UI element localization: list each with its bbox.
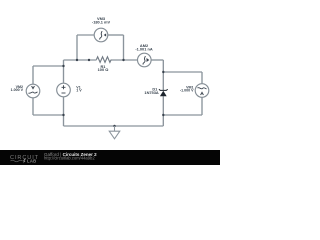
zener diode D1 cathode bar: [159, 89, 168, 90]
wire VM1 top lead (202,72)-(202,83.7): [201, 72, 203, 84]
svg-text:-1.001 nA: -1.001 nA: [135, 47, 152, 52]
svg-text:-1.000 V: -1.000 V: [180, 88, 194, 92]
wire V1 bottom lead (63.5,96.8)-(63.5,126): [63, 97, 65, 126]
ammeter AM2 needle: [143, 56, 145, 65]
voltmeter VM2 body: [26, 84, 40, 98]
node junction dot ground (114.5,126): [113, 125, 115, 127]
svg-text:100 Ω: 100 Ω: [98, 67, 109, 72]
zener diode D1 anode triangle: [160, 91, 167, 96]
voltage source V1 body: [57, 83, 71, 97]
wire D1 bottom lead (163.3,96.2)-(163.3,126): [162, 96, 164, 126]
wire AM2 right to corner (151.1,60)-(163.3,60): [151, 59, 163, 61]
svg-text:LAB: LAB: [27, 159, 37, 164]
wire bottom rail (63.5,126)-(163.3,126): [64, 125, 164, 127]
svg-text:1N753A: 1N753A: [144, 90, 158, 95]
wire VM2 bottom lead (33,97.8)-(33,115): [32, 98, 34, 115]
wire V1 top lead (63.5,60)-(63.5,83.2): [63, 60, 65, 83]
ammeter AM2 body: [138, 53, 152, 67]
ground symbol: [109, 126, 120, 139]
wire VM1 bottom horizontal (202,115)-(163.3,115): [163, 114, 202, 116]
wire VM1 top horizontal (163.3,72)-(202,72): [163, 71, 202, 73]
node junction dot (63.5,115): [62, 114, 64, 116]
wire D1 top lead (163.3,60)-(163.3,90.4): [162, 60, 164, 90]
wire VM3 loop top-right horizontal (107.8,35)-(123.5,35): [108, 34, 124, 36]
svg-text:-180.1 mV: -180.1 mV: [92, 20, 111, 25]
wire VM2 bottom horizontal (33,115)-(63.5,115): [33, 114, 64, 116]
footer CircuitLab logo wave: [11, 160, 23, 162]
ammeter AM2 letter A (rotated, appears as right arrow): [147, 58, 150, 62]
wire VM3 loop top-left horizontal (77,35)-(94.2,35): [77, 34, 94, 36]
node junction dot (123.5,60): [122, 59, 124, 61]
node junction dot (89,60): [88, 59, 90, 61]
svg-text:1 V: 1 V: [76, 88, 82, 92]
wire VM3 loop left vertical (77,35)-(77,60): [76, 35, 78, 60]
node junction dot (63.5,66): [62, 65, 64, 67]
voltmeter VM1 letter V (flipped, appears as caret): [201, 92, 204, 95]
wire VM3 loop right vertical (123.5,35)-(123.5,60): [123, 35, 125, 60]
voltage source V1 minus sign: [62, 92, 66, 94]
wire VM2 top horizontal (33,66)-(63.5,66): [33, 65, 64, 67]
voltage source V1 plus sign: [62, 85, 66, 89]
resistor R1 zigzag: [96, 57, 111, 63]
wire VM2 top lead (33,66)-(33,84.2): [32, 66, 34, 84]
node junction dot (163.3,115): [162, 114, 164, 116]
voltmeter VM3 letter V (rotated, appears as left chevron): [104, 33, 107, 36]
voltmeter VM3 body: [94, 28, 108, 42]
voltmeter VM1 body: [195, 84, 209, 98]
voltmeter VM1 needle: [198, 88, 207, 89]
footer CircuitLab logo bolt: [23, 159, 26, 164]
svg-text:http://circuitlab.com/44a9b2: http://circuitlab.com/44a9b2: [44, 156, 95, 161]
wire VM1 bottom lead (202,97.3)-(202,115): [201, 97, 203, 115]
wire top rail right of R1 (110,60)-(137.5,60): [111, 59, 138, 61]
voltmeter VM2 needle: [29, 92, 38, 93]
footer bar: [0, 150, 220, 165]
svg-text:1.000 V: 1.000 V: [11, 88, 24, 92]
wire top rail left (63.5,60)-(95,60): [64, 59, 97, 61]
voltmeter VM2 letter V: [32, 86, 35, 89]
node junction dot (77,60): [76, 59, 78, 61]
voltmeter VM3 needle: [100, 31, 102, 40]
node junction dot (163.3,72): [162, 71, 164, 73]
